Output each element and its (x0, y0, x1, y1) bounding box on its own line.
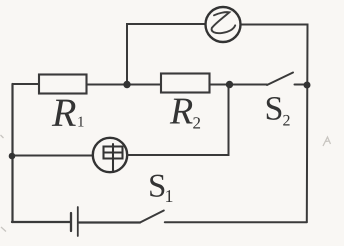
svg-text:2: 2 (192, 114, 201, 133)
svg-text:2: 2 (282, 113, 290, 130)
svg-text:1: 1 (77, 114, 85, 130)
svg-text:R: R (51, 90, 76, 135)
svg-text:1: 1 (164, 186, 173, 206)
svg-text:S: S (264, 91, 283, 128)
svg-text:R: R (169, 90, 193, 132)
